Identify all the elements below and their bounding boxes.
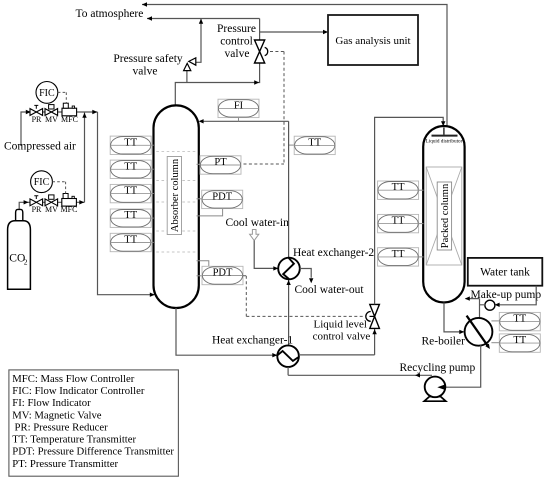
svg-text:TT: TT <box>124 161 137 172</box>
svg-text:Recycling pump: Recycling pump <box>400 362 476 374</box>
svg-text:Cool water-out: Cool water-out <box>295 284 365 296</box>
svg-text:TT: TT <box>124 235 137 246</box>
svg-text:valve: valve <box>133 65 158 77</box>
svg-text:Gas analysis unit: Gas analysis unit <box>335 35 410 47</box>
svg-text:FI: Flow Indicator: FI: Flow Indicator <box>12 397 91 409</box>
svg-text:PDT: Pressure Difference Trans: PDT: Pressure Difference Transmitter <box>12 446 174 458</box>
svg-text:MV: Magnetic Valve: MV: Magnetic Valve <box>12 409 101 421</box>
svg-text:TT: TT <box>513 335 526 346</box>
svg-text:TT: TT <box>392 249 405 260</box>
svg-text:control valve: control valve <box>313 331 371 343</box>
svg-text:TT: TT <box>513 314 526 325</box>
svg-text:TT: TT <box>308 137 321 148</box>
svg-text:Heat exchanger-1: Heat exchanger-1 <box>212 335 293 347</box>
svg-text:TT: TT <box>124 186 137 197</box>
svg-text:Liquid distributor: Liquid distributor <box>426 139 463 145</box>
svg-text:Cool water-in: Cool water-in <box>226 217 290 229</box>
svg-text:FIC: FIC <box>34 177 50 188</box>
svg-text:TT: TT <box>124 210 137 221</box>
svg-text:Water tank: Water tank <box>480 267 530 279</box>
svg-text:TT: Temperature Transmitter: TT: Temperature Transmitter <box>12 434 136 446</box>
svg-text:Liquid level: Liquid level <box>314 318 367 330</box>
svg-text:2: 2 <box>24 258 28 267</box>
svg-text:Compressed air: Compressed air <box>4 140 76 152</box>
svg-text:Re-boiler: Re-boiler <box>422 335 466 347</box>
svg-text:FI: FI <box>234 100 244 111</box>
svg-text:Packed column: Packed column <box>440 183 451 248</box>
svg-text:FIC: Flow Indicator Controller: FIC: Flow Indicator Controller <box>12 385 145 397</box>
svg-text:PR: PR <box>32 115 42 124</box>
svg-text:MFC: MFC <box>61 115 78 124</box>
svg-text:PDT: PDT <box>213 268 233 279</box>
svg-text:PT: PT <box>214 157 227 168</box>
svg-text:PT: Pressure Transmitter: PT: Pressure Transmitter <box>12 458 118 470</box>
svg-text:PDT: PDT <box>212 191 232 202</box>
svg-text:Heat exchanger-2: Heat exchanger-2 <box>293 247 374 259</box>
svg-text:MFC: MFC <box>61 205 78 214</box>
svg-text:PR: PR <box>32 205 42 214</box>
svg-text:PR: Pressure Reducer: PR: Pressure Reducer <box>15 421 109 433</box>
svg-text:To atmosphere: To atmosphere <box>76 8 144 20</box>
svg-text:TT: TT <box>392 216 405 227</box>
svg-text:Absorber column: Absorber column <box>170 158 181 232</box>
svg-text:TT: TT <box>392 182 405 193</box>
svg-text:Make-up pump: Make-up pump <box>471 289 542 301</box>
svg-text:Pressure safety: Pressure safety <box>113 53 183 65</box>
svg-text:MV: MV <box>45 205 58 214</box>
svg-text:MV: MV <box>45 115 58 124</box>
svg-text:TT: TT <box>124 137 137 148</box>
svg-text:FIC: FIC <box>39 88 55 99</box>
svg-text:MFC: Mass Flow Controller: MFC: Mass Flow Controller <box>12 373 134 385</box>
svg-text:Pressure: Pressure <box>217 23 256 35</box>
svg-text:valve: valve <box>225 48 250 60</box>
svg-text:control: control <box>220 35 253 47</box>
